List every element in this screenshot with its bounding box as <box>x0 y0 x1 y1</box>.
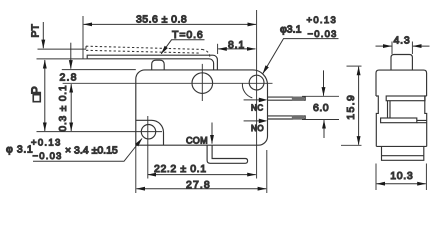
27.8 left extension line <box>135 145 137 193</box>
svg-text:8.1: 8.1 <box>228 39 245 51</box>
svg-text:× 3.4 ±0.15: × 3.4 ±0.15 <box>65 144 118 156</box>
22.2 dimension line <box>148 174 256 176</box>
T=0.6 leader <box>161 40 204 54</box>
15.9 dimension line <box>358 67 360 145</box>
27.8 dimension line <box>136 188 266 190</box>
2.8 extension line (body top) <box>62 69 136 71</box>
OP dimension line <box>44 60 46 131</box>
end view mid body sides <box>376 96 427 146</box>
circle A vertical centerline <box>201 64 203 101</box>
NC indicator line and arrow <box>244 99 260 101</box>
end view plunger <box>391 55 412 71</box>
svg-text:COM: COM <box>186 136 208 146</box>
end view main top block <box>376 70 427 96</box>
hole C boss <box>136 120 164 145</box>
PT dimension arrow <box>42 22 44 48</box>
27.8 right extension line <box>266 150 268 193</box>
hole C (bottom-left mounting hole phi 3.1) <box>141 125 155 139</box>
NO terminal pin <box>268 116 306 119</box>
svg-text:2.8: 2.8 <box>60 72 78 84</box>
10.3 dimension line <box>377 183 426 185</box>
svg-text:T=0.6: T=0.6 <box>172 29 204 41</box>
svg-text:φ3.1: φ3.1 <box>280 24 302 36</box>
10.3 left extension line <box>375 164 377 191</box>
15.9 bottom extension tick <box>341 144 362 146</box>
6.0 lower extension line <box>302 119 339 121</box>
hole B horizontal centerline <box>63 82 273 84</box>
8.1 left extension line <box>217 44 219 54</box>
4.3 left extension line <box>391 42 393 55</box>
svg-text:4.3: 4.3 <box>394 34 411 46</box>
svg-text:27.8: 27.8 <box>186 179 211 191</box>
NO pin crimp <box>292 115 305 119</box>
COM leader arrow <box>211 123 213 144</box>
35.6 dimension line <box>84 23 256 25</box>
svg-text:□P: □P <box>30 86 44 102</box>
end view bottom block <box>382 146 424 160</box>
end view lower bar <box>381 118 417 123</box>
svg-text:6.0: 6.0 <box>313 102 329 114</box>
plunger bump (side view) <box>152 60 165 70</box>
hole C horizontal centerline <box>37 131 163 133</box>
svg-text:PT: PT <box>30 23 42 37</box>
circle A (center boss hole) <box>192 73 213 94</box>
NC pin crimp <box>292 97 305 101</box>
8.1 dimension line <box>218 48 255 50</box>
svg-text:10.3: 10.3 <box>390 170 413 182</box>
35.6 / 22.2 right extension line through hole B <box>256 10 258 179</box>
6.0 upper extension line <box>302 95 339 97</box>
10.3 right extension line <box>425 164 427 191</box>
35.6 left extension line <box>82 16 84 59</box>
4.3 right extension line <box>411 42 413 55</box>
end view central web <box>388 101 391 118</box>
svg-text:22.2 ± 0.1: 22.2 ± 0.1 <box>154 163 207 175</box>
hole B (top-right mounting hole phi 3.1) <box>249 75 264 90</box>
COM terminal L bracket <box>207 145 248 163</box>
lever (dashed, free position) <box>86 46 210 57</box>
svg-text:−0.03: −0.03 <box>33 151 63 162</box>
0.3 dimension line (lower arrows) <box>70 84 72 131</box>
svg-text:NO: NO <box>251 124 264 133</box>
phi 3.1 top-right leader <box>263 39 339 74</box>
6.0 upper arrow <box>323 70 325 95</box>
svg-text:35.6 ± 0.8: 35.6 ± 0.8 <box>136 13 187 25</box>
operating position line (OP) <box>37 58 88 60</box>
free position line (FP) <box>38 48 87 50</box>
end view bottom line <box>376 145 426 147</box>
phi 3.1 bottom-left leader <box>33 139 142 162</box>
svg-text:NC: NC <box>251 103 264 112</box>
4.3 right outside arrow <box>413 45 430 47</box>
hole B boss arc <box>242 84 252 98</box>
NC terminal pin <box>268 97 306 100</box>
2.8 dimension upper arrow <box>70 43 72 69</box>
switch body outline (side view) <box>136 70 268 145</box>
end view lower bar side ticks <box>417 120 427 122</box>
svg-text:15.9: 15.9 <box>345 94 357 120</box>
svg-text:+0.13: +0.13 <box>31 137 62 148</box>
svg-text:+0.13: +0.13 <box>307 15 338 26</box>
NO indicator line and arrow <box>244 120 260 122</box>
lever (solid, pressed position) <box>87 55 217 70</box>
15.9 top extension tick <box>347 65 362 67</box>
svg-text:0.3 ± 0.1: 0.3 ± 0.1 <box>58 85 69 132</box>
4.3 left outside arrow <box>376 45 392 47</box>
svg-text:φ 3.1: φ 3.1 <box>6 143 33 155</box>
end view upper flange bar <box>386 96 425 101</box>
6.0 lower arrow <box>323 120 325 138</box>
hole C vertical centerline / 22.2 left extension <box>147 116 149 179</box>
